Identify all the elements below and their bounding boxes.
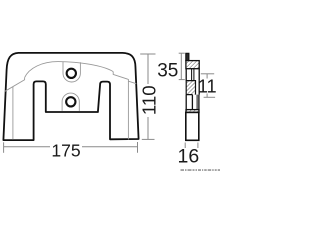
dimension 175 line xyxy=(4,146,50,148)
side view top tab (hatched) xyxy=(186,53,189,60)
svg-text:35: 35 xyxy=(157,61,178,82)
dimension 35 line xyxy=(180,53,182,79)
front face dome contour arc xyxy=(25,62,114,78)
side view middle hatched block xyxy=(186,81,196,95)
dimension 16 extension stubs xyxy=(184,143,186,149)
svg-text:11: 11 xyxy=(198,76,217,96)
left leg face edge line xyxy=(12,87,14,140)
upper hole xyxy=(67,69,76,78)
dimension 175 extension lines xyxy=(3,142,5,153)
lower hole boss xyxy=(62,93,79,111)
right leg face edge line xyxy=(127,81,129,139)
svg-text:110: 110 xyxy=(138,85,159,115)
side view outer right edge beside middle block xyxy=(198,81,200,95)
side view bottom plate xyxy=(186,112,199,140)
side view lower columns xyxy=(186,95,199,110)
dimension 110 line xyxy=(147,54,149,84)
side view upper wide block (hatched) xyxy=(186,61,199,69)
watermark micro-text band xyxy=(181,169,221,171)
dimension 11 ticks xyxy=(201,73,214,75)
side view neck columns xyxy=(186,69,199,81)
right contour step and diagonal xyxy=(113,72,136,84)
upper hole boss xyxy=(63,62,80,82)
side view thin hatched band xyxy=(186,110,199,113)
left contour step and diagonal xyxy=(5,78,25,92)
svg-text:16: 16 xyxy=(178,146,200,168)
anode front view outer silhouette xyxy=(3,53,138,140)
lower hole xyxy=(66,97,75,106)
svg-text:175: 175 xyxy=(51,141,81,161)
